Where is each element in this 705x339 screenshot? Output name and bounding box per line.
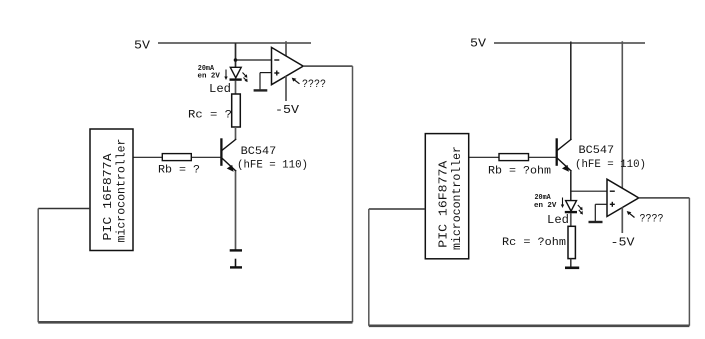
wire rail to collector (right): [570, 42, 572, 140]
resistor Rc (right, vertical): [568, 226, 575, 258]
svg-text:BC547: BC547: [241, 146, 277, 158]
wire feedback loop bottom (left circuit): [38, 321, 352, 324]
wire PIC to Rb: [133, 156, 162, 158]
microcontroller U3 PIC 16F877A (right): [425, 134, 468, 259]
wire op-amp noninverting input to ground: [260, 73, 272, 90]
svg-text:????: ????: [302, 79, 326, 91]
wire emitter node to op-amp inverting input (right): [571, 190, 607, 192]
svg-text:Rc = ?ohm: Rc = ?ohm: [502, 237, 566, 249]
resistor Rc (left, vertical): [232, 94, 241, 127]
svg-text:Rb = ?: Rb = ?: [158, 165, 200, 177]
ground (right, below Rc): [565, 266, 579, 269]
svg-text:microcontroller: microcontroller: [450, 146, 464, 250]
svg-text:en 2V: en 2V: [534, 202, 557, 210]
label ???? with arrow (right): [627, 211, 664, 226]
svg-text:(hFE = 110): (hFE = 110): [575, 159, 646, 171]
wire LED cathode to Rc: [235, 81, 237, 95]
wire node to op-amp inverting input: [236, 59, 272, 61]
wire 5V rail (right): [494, 42, 645, 44]
LED D1 (left): [224, 67, 247, 82]
op-amp U4 (right): [607, 179, 639, 216]
ground (right, op-amp + input): [589, 221, 603, 223]
svg-text:Rc = ?: Rc = ?: [188, 110, 232, 122]
wire op-amp output (right): [639, 197, 690, 199]
svg-text:20mA: 20mA: [535, 194, 552, 202]
wire feedback loop left side (left circuit): [37, 209, 39, 323]
node junction dot (LED / op-amp inverting input): [234, 58, 238, 62]
wire op-amp output (left): [303, 65, 352, 67]
svg-text:Rb = ?ohm: Rb = ?ohm: [488, 166, 551, 178]
ground (left, emitter): [230, 250, 242, 267]
ground (left, op-amp + input): [254, 89, 268, 91]
wire feedback into PIC (right): [369, 208, 426, 210]
microcontroller U1 PIC 16F877A (left): [90, 129, 133, 251]
svg-text:en 2V: en 2V: [198, 73, 221, 81]
label ???? with arrow (left): [292, 78, 326, 91]
svg-text:5V: 5V: [134, 39, 151, 53]
wire PIC to Rb (right): [469, 156, 499, 158]
wire op-amp V+ supply stub (left): [285, 41, 287, 57]
svg-text:5V: 5V: [470, 37, 487, 51]
wire op-amp noninverting input to ground (right): [595, 204, 607, 221]
svg-text:-5V: -5V: [275, 103, 300, 117]
wire Rc to collector: [235, 127, 237, 140]
wire 5V rail (left): [158, 42, 311, 44]
wire feedback loop right side (left circuit): [352, 66, 354, 322]
value label 20mA en 2V (right LED): [534, 194, 557, 210]
svg-text:(hFE = 110): (hFE = 110): [237, 159, 308, 171]
svg-text:Led: Led: [209, 82, 231, 96]
wire rail to LED anode: [235, 43, 237, 68]
wire Rc to ground (right): [570, 258, 572, 267]
svg-text:PIC 16F877A: PIC 16F877A: [437, 160, 451, 248]
resistor Rb (right, horizontal): [499, 154, 529, 161]
svg-text:BC547: BC547: [579, 145, 615, 157]
value label 20mA en 2V (left LED): [198, 65, 221, 81]
wire feedback into PIC (left): [38, 208, 90, 210]
transistor Q1 BC547 (left): [221, 138, 236, 172]
wire op-amp V+ supply (right, rail to op-amp top): [621, 41, 623, 188]
wire op-amp V- supply stub (left): [285, 76, 287, 101]
wire LED cathode to Rc (right): [570, 213, 572, 226]
svg-text:????: ????: [640, 214, 664, 226]
LED D2 (right): [561, 198, 583, 215]
wire feedback loop right side (right circuit): [688, 198, 690, 326]
transistor Q2 BC547 (right): [557, 138, 572, 172]
svg-text:PIC 16F877A: PIC 16F877A: [101, 153, 115, 241]
wire Rb to base (right): [529, 156, 557, 158]
svg-text:-5V: -5V: [611, 236, 636, 250]
svg-text:Led: Led: [547, 213, 569, 227]
op-amp U2 (left): [272, 47, 304, 84]
wire feedback loop left side (right circuit): [368, 209, 370, 326]
wire Rb to base: [191, 156, 221, 158]
wire emitter to ground: [235, 171, 237, 249]
svg-text:microcontroller: microcontroller: [115, 139, 129, 243]
resistor Rb (left, horizontal): [162, 154, 191, 161]
wire emitter to LED (right): [570, 171, 572, 201]
wire op-amp V- supply stub (right): [621, 207, 623, 233]
wire feedback loop bottom (right circuit): [369, 324, 690, 327]
